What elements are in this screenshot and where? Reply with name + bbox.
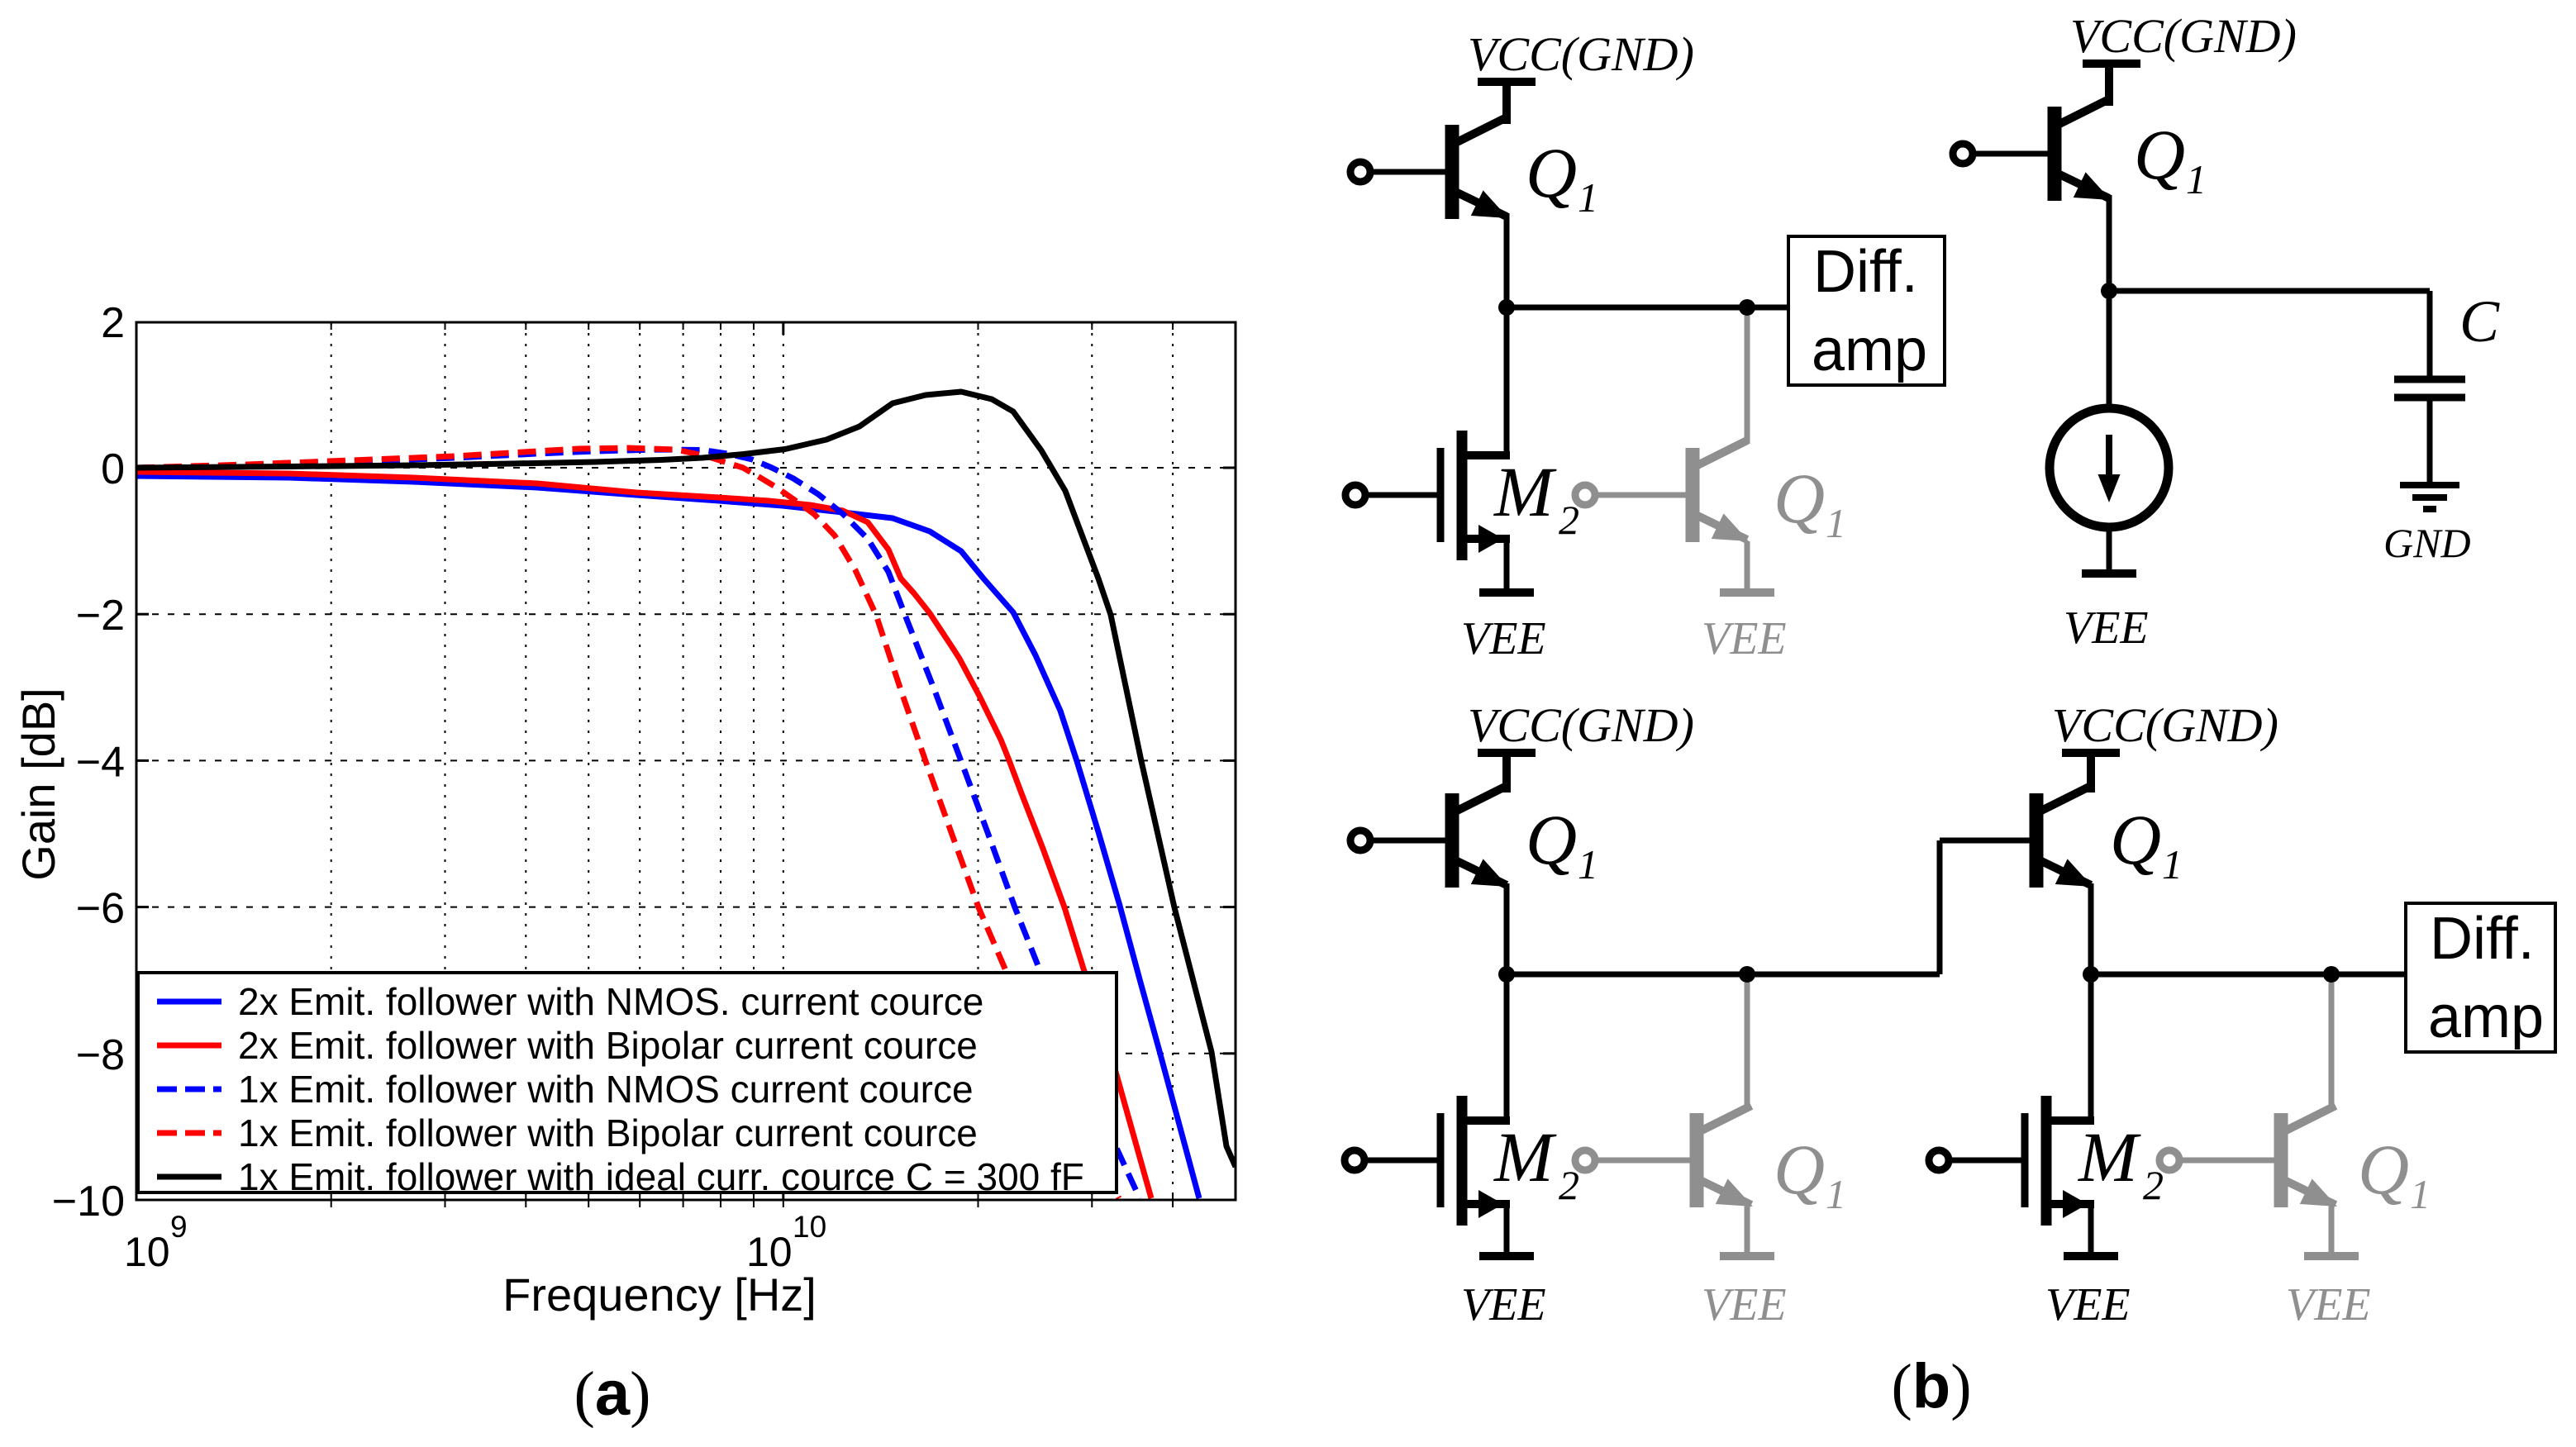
wire: M2 drain up to node c4 (2088, 974, 2094, 1121)
svg-text:1x Emit. follower with Bipolar: 1x Emit. follower with Bipolar current c… (238, 1111, 978, 1154)
svg-text:(b): (b) (1891, 1351, 1971, 1421)
svg-text:1: 1 (2410, 1171, 2431, 1217)
curve: 1x Emit. follower with NMOS current source (blue dashed) (136, 450, 1140, 1198)
svg-text:−10: −10 (52, 1178, 125, 1226)
wire: M2 source down to VEE c1 (1504, 539, 1510, 597)
wire: M2 source down to VEE c4 (2088, 1204, 2094, 1260)
ground VEE (M2) c1 (1479, 588, 1534, 597)
ground VEE c2 (2082, 569, 2136, 578)
svg-text:9: 9 (170, 1210, 188, 1244)
node: output c3 (1498, 966, 1515, 983)
svg-text:VEE: VEE (1461, 1279, 1546, 1330)
svg-text:1x Emit. follower with NMOS cu: 1x Emit. follower with NMOS current cour… (238, 1068, 974, 1111)
svg-text:1: 1 (2162, 841, 2183, 888)
wire: gray emitter to VEE c3 (1745, 1207, 1750, 1260)
svg-text:Frequency [Hz]: Frequency [Hz] (502, 1269, 817, 1321)
svg-text:2x Emit. follower with Bipolar: 2x Emit. follower with Bipolar current c… (238, 1024, 978, 1067)
wire: c3 output to c4 base (1507, 972, 1940, 978)
gray ground VEE c4 (2304, 1252, 2359, 1260)
x tick labels (124, 1210, 826, 1275)
svg-text:Q: Q (2110, 800, 2161, 879)
wire: current source to VEE c2 (2107, 527, 2112, 574)
svg-text:VEE: VEE (1461, 613, 1546, 664)
axes frame (136, 322, 1236, 1200)
wire: emitter down to output node c3 (1504, 883, 1510, 974)
svg-text:VEE: VEE (1702, 1279, 1787, 1330)
node: output of Q1 c1 (1498, 299, 1515, 316)
wire: gray emitter to VEE c1 (1745, 541, 1750, 597)
wire: M2 drain up to node c1 (1504, 307, 1510, 455)
axis ticks (136, 322, 1236, 1207)
wire: gray emitter to VEE c4 (2329, 1207, 2335, 1260)
node: junction to current source c1 (1739, 299, 1755, 316)
svg-text:M: M (1493, 1117, 1557, 1197)
capacitor C c2 (2394, 376, 2465, 383)
MOSFET M2 c1 (1437, 448, 1445, 542)
svg-text:(a): (a) (574, 1359, 651, 1429)
svg-text:VCC(GND): VCC(GND) (1468, 698, 1694, 752)
svg-text:−8: −8 (76, 1031, 125, 1079)
transistor Q1 c2 (2105, 64, 2113, 106)
svg-text:−6: −6 (76, 885, 125, 933)
y tick labels (52, 299, 125, 1226)
ground GND (earth) c2 (2400, 482, 2459, 488)
node: junction to gray current source c3 (1739, 966, 1755, 983)
svg-text:2: 2 (101, 299, 125, 347)
input terminal c3 (1350, 831, 1370, 850)
curve: 2x Emit. follower with NMOS current source (blue solid) (136, 476, 1199, 1198)
wire: c4 output to Diff amp (2091, 972, 2406, 978)
Diff amp box c1 (1788, 236, 1945, 385)
svg-text:C: C (2459, 288, 2500, 355)
svg-text:amp: amp (1812, 317, 1927, 383)
svg-text:GND: GND (2383, 520, 2471, 566)
svg-text:1: 1 (1826, 500, 1846, 546)
legend row: 2x Emit. follower with Bipolar current cource (157, 1043, 221, 1049)
wire: emitter down to output node c1 (1504, 213, 1510, 307)
transistor Q1 (gray current source) c4 (2329, 983, 2335, 1109)
svg-text:VCC(GND): VCC(GND) (2070, 9, 2297, 63)
svg-text:VCC(GND): VCC(GND) (1468, 27, 1694, 81)
svg-text:VEE: VEE (2286, 1279, 2371, 1330)
svg-text:−2: −2 (76, 592, 125, 640)
svg-text:VEE: VEE (1702, 613, 1787, 664)
transistor Q1 (gray current source) c3 (1745, 983, 1750, 1109)
svg-text:Q: Q (1526, 800, 1577, 879)
gray input terminal c3 (1575, 1150, 1595, 1170)
svg-text:Diff.: Diff. (1813, 239, 1918, 305)
wire: capacitor to GND c2 (2427, 397, 2433, 483)
gray ground VEE c3 (1720, 1252, 1774, 1260)
wire: emitter down to output node c4 (2088, 883, 2094, 974)
svg-text:−4: −4 (76, 738, 125, 786)
node: output c4 (2083, 966, 2099, 983)
wire: M2 drain up to node c3 (1504, 974, 1510, 1121)
svg-text:10: 10 (793, 1210, 826, 1244)
svg-text:Diff.: Diff. (2430, 906, 2535, 972)
input terminal M2 gate c4 (1929, 1150, 1949, 1170)
svg-text:2x Emit. follower with NMOS. c: 2x Emit. follower with NMOS. current cou… (238, 980, 983, 1023)
wire: emitter to node c2 (2107, 195, 2112, 291)
curve: 1x Emit. follower with ideal current source C=300fF (black solid) (136, 392, 1236, 1167)
svg-text:1x Emit. follower with ideal c: 1x Emit. follower with ideal curr. courc… (238, 1155, 1084, 1198)
legend row: 2x Emit. follower with NMOS. current cource (157, 999, 221, 1005)
svg-text:Q: Q (1774, 459, 1825, 538)
legend row: 1x Emit. follower with NMOS current cource (157, 1087, 221, 1092)
input terminal M2 gate c3 (1345, 1150, 1364, 1170)
plot grid (136, 322, 1236, 1200)
svg-text:VEE: VEE (2064, 602, 2149, 654)
legend row: 1x Emit. follower with ideal curr. cource C = 300 fF (157, 1174, 221, 1180)
svg-text:1: 1 (1826, 1171, 1846, 1217)
svg-text:10: 10 (124, 1229, 170, 1275)
svg-text:M: M (2077, 1117, 2141, 1197)
wire: M2 source down to VEE c3 (1504, 1204, 1510, 1260)
svg-text:1: 1 (1578, 174, 1598, 221)
svg-text:VCC(GND): VCC(GND) (2052, 698, 2278, 752)
svg-text:amp: amp (2428, 984, 2544, 1050)
transistor Q1 c1 (1502, 82, 1511, 124)
ground VEE (M2) c4 (2064, 1252, 2118, 1260)
svg-text:Q: Q (1526, 133, 1577, 212)
legend box (138, 973, 1117, 1192)
curve: 2x Emit. follower with Bipolar current source (red solid) (136, 472, 1151, 1198)
ideal current source c2 (2050, 408, 2169, 527)
wire: node to capacitor c2 (2109, 288, 2430, 294)
node: junction to gray current source c4 (2323, 966, 2340, 983)
input terminal c2 (1953, 144, 1973, 164)
wire: output node to Diff amp c1 (1507, 305, 1788, 311)
transistor Q1 c4 (2087, 753, 2095, 793)
svg-text:Q: Q (2134, 115, 2185, 194)
svg-text:1: 1 (1578, 841, 1598, 888)
svg-text:1: 1 (2186, 156, 2207, 202)
svg-text:Gain [dB]: Gain [dB] (12, 688, 64, 880)
MOSFET M2 c3 (1437, 1113, 1445, 1207)
gray input terminal c1 (1575, 485, 1595, 505)
transistor Q1 (gray current source) c1 (1745, 316, 1750, 444)
svg-text:Q: Q (1774, 1130, 1825, 1209)
input terminal M2 gate c1 (1345, 485, 1365, 505)
transistor Q1 c3 (1502, 753, 1511, 793)
Diff amp box c4 (2406, 903, 2555, 1052)
node: output c2 (2101, 283, 2117, 299)
svg-text:M: M (1493, 452, 1557, 531)
gray input terminal c4 (2159, 1150, 2179, 1170)
MOSFET M2 c4 (2021, 1113, 2029, 1207)
input terminal c1 (1350, 162, 1370, 182)
svg-text:Q: Q (2358, 1130, 2409, 1209)
wire: node down to current source c2 (2107, 291, 2112, 408)
svg-text:VEE: VEE (2045, 1279, 2131, 1330)
svg-text:0: 0 (101, 445, 125, 493)
legend row: 1x Emit. follower with Bipolar current cource (157, 1130, 221, 1136)
ground VEE (M2) c3 (1479, 1252, 1534, 1260)
gray ground VEE c1 (1720, 588, 1774, 597)
curve: 1x Emit. follower with Bipolar current source (red dashed) (136, 448, 1119, 1198)
